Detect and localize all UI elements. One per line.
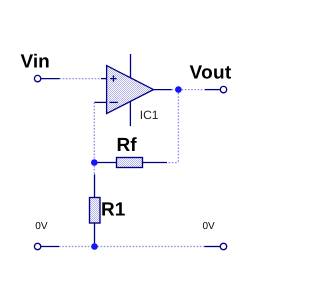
terminal 0V right (220, 243, 226, 249)
svg-text:0V: 0V (35, 221, 48, 232)
terminal Vin (34, 75, 40, 81)
pin op-amp bottom power (129, 101, 131, 126)
op-amp IC1 triangle (107, 66, 154, 114)
pin R1 top (94, 174, 96, 197)
wire output to junction (172, 89, 179, 91)
svg-text:IC1: IC1 (140, 108, 159, 122)
pin 0V right terminal (205, 246, 221, 248)
svg-text:R1: R1 (101, 199, 126, 220)
pin from Vin terminal (41, 78, 60, 80)
pin op-amp output (154, 89, 172, 91)
wire Vin to op-amp + input (60, 78, 102, 80)
op-amp + marking (110, 75, 117, 81)
pin op-amp + input (101, 78, 107, 80)
svg-text:0V: 0V (203, 221, 216, 232)
junction output node (175, 86, 182, 93)
junction feedback node (91, 159, 98, 166)
svg-text:Vin: Vin (21, 51, 50, 72)
terminal Vout (220, 86, 226, 92)
svg-text:Vout: Vout (190, 63, 232, 84)
pin R1 bottom (94, 223, 96, 243)
pin Rf right (143, 162, 168, 164)
resistor Rf (117, 158, 143, 168)
wire node down to R1 (93, 166, 95, 175)
wire junction to Vout terminal (182, 89, 205, 91)
junction ground node (91, 243, 98, 250)
op-amp - marking (110, 101, 118, 103)
terminal 0V left (34, 243, 40, 249)
wire junction down and left to Rf (167, 93, 178, 163)
pin Rf left (95, 162, 117, 164)
wire bottom rail (59, 246, 205, 248)
pin op-amp - input (94, 101, 106, 103)
pin 0V left terminal (41, 246, 59, 248)
svg-text:Rf: Rf (117, 135, 138, 156)
resistor R1 (90, 198, 101, 224)
pin op-amp top power (130, 54, 132, 78)
pin Vout terminal (205, 89, 220, 91)
wire - input down to feedback node (93, 102, 95, 159)
